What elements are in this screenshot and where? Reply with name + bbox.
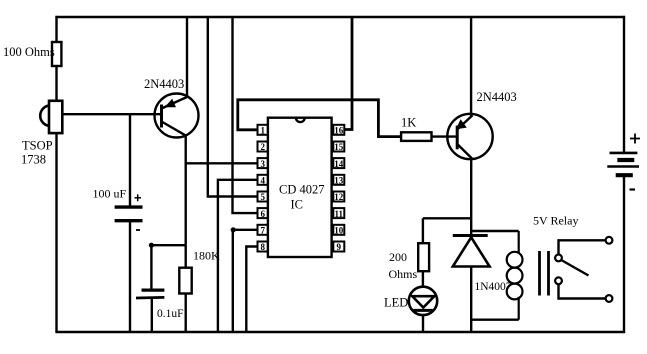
wire Q2 collector down to relay node [470,158,472,236]
svg-text:TSOP: TSOP [22,139,53,153]
relay switch moving arm [561,260,588,276]
svg-text:CD 4027: CD 4027 [279,183,325,197]
TSOP1738 IR receiver [40,101,62,133]
pin 6 box [258,208,268,218]
pin 4 box [258,175,268,185]
wire pin7 to ground [233,230,258,332]
label battery minus [630,188,636,190]
svg-text:6: 6 [260,209,265,219]
junction dot at 0.1uF tee [149,243,154,248]
svg-text:180K: 180K [193,249,220,263]
pin 3 box [258,158,268,168]
wire pin16 to top rail [344,17,352,130]
wire pin5 to top rail [208,17,258,197]
wire top supply rail [55,16,625,18]
wire 200 Ohms to LED [422,271,424,287]
capacitor C1 100 uF [129,114,131,207]
svg-text:0.1uF: 0.1uF [157,308,184,320]
svg-text:5V Relay: 5V Relay [533,214,578,228]
svg-text:1K: 1K [401,116,416,130]
wire Q1 emitter to top rail [186,17,188,98]
pin 14 box [333,158,344,168]
label C1 plus [135,194,142,201]
svg-text:12: 12 [334,192,344,202]
wire pin4 to ground [218,180,258,332]
svg-text:9: 9 [337,242,342,252]
relay switch top contact wire [559,240,606,254]
svg-text:11: 11 [335,209,344,219]
svg-text:LED: LED [384,295,408,309]
resistor 100 Ohms [52,42,61,66]
svg-text:3: 3 [260,159,265,169]
transistor Q2 2N4403 [447,114,492,159]
inductor relay coil [507,231,523,320]
wire pin6 to top rail [233,17,258,213]
wire 1K to Q2 base [432,135,459,137]
relay switch bottom terminal [606,295,613,302]
relay core bar right [547,251,550,296]
wire bottom ground rail [55,331,625,334]
pin 8 box [258,242,268,252]
relay switch top terminal [606,237,613,244]
wire right rail lower segment [623,177,625,333]
wire diode anode to ground rail [470,267,472,333]
transistor Q1 2N4403 [155,94,199,138]
svg-text:2: 2 [260,142,265,152]
wire pin8 to ground [246,247,257,333]
svg-text:14: 14 [334,159,344,169]
LED D2 [409,287,437,315]
resistor 200 Ohms [418,243,429,271]
relay core bar left [538,251,541,296]
wire 0.1uF tee from 180K line [151,244,186,246]
pin 2 box [258,142,268,152]
pin 9 box [333,242,344,252]
svg-text:5: 5 [260,192,265,202]
resistor 180K [179,268,191,294]
pin 11 box [333,208,344,218]
pin 7 box [258,225,268,235]
svg-text:15: 15 [334,142,344,152]
relay switch pivot contact [555,255,562,262]
wire TSOP output to Q1 base [62,113,162,115]
label battery plus [630,134,640,144]
pin 1 box [258,125,268,135]
svg-text:2N4403: 2N4403 [477,90,517,104]
label C1 minus [136,229,140,231]
svg-text:100 uF: 100 uF [93,187,127,201]
svg-text:4: 4 [260,176,265,186]
relay switch bottom contact wire [559,284,606,298]
wire relay coil bottom connector [471,319,519,321]
wire LED to ground rail [422,315,424,332]
svg-text:Ohms: Ohms [389,267,418,281]
svg-text:100 Ohms: 100 Ohms [3,45,55,59]
wire 200 Ohms top lead [422,218,424,243]
wire left rail lower segment [55,133,57,333]
svg-text:1738: 1738 [21,153,46,167]
svg-text:7: 7 [260,226,265,236]
svg-text:8: 8 [260,242,265,252]
battery B1 [607,153,639,175]
wire left rail upper segment [55,16,57,43]
pin 13 box [333,175,344,185]
wire collector node branch to 200 Ohms [423,217,471,219]
capacitor C2 0.1uF [150,245,152,290]
arrow Q1 emitter (PNP, points to base) [165,99,177,108]
svg-text:200: 200 [389,250,407,264]
pin 16 box [333,125,344,135]
wire right rail upper segment [623,16,625,152]
svg-text:13: 13 [334,176,344,186]
pin 12 box [333,192,344,202]
wire relay coil top connector [471,230,519,232]
diode D1 1N4007 [453,236,490,267]
wire Q1 collector node down to 180K [184,163,186,267]
pin 5 box [258,192,268,202]
wire Q2 emitter to top rail [470,17,472,116]
pin 15 box [333,142,344,152]
arrow Q2 emitter (PNP, points to base) [456,119,467,129]
svg-text:1: 1 [260,126,265,136]
resistor 1K [401,132,431,141]
svg-text:IC: IC [291,198,304,212]
junction dot pin7 corner [231,227,236,232]
svg-text:16: 16 [334,126,344,136]
svg-text:2N4403: 2N4403 [144,77,184,91]
wire left rail resistor-to-TSOP segment [55,65,57,102]
wire pin1 over-route to 1K resistor [238,100,401,137]
pin 10 box [333,225,344,235]
relay switch lower contact [555,277,562,284]
svg-text:10: 10 [334,226,344,236]
IC U1 CD 4027 body [268,118,332,257]
wire Q1 collector down and right to pin 3 [186,135,258,163]
